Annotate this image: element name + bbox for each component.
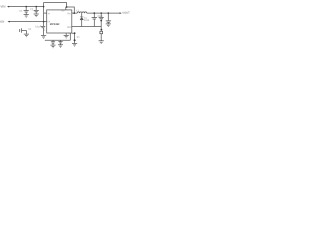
svg-text:C1: C1 bbox=[19, 10, 23, 13]
diode D1 symbol bbox=[80, 17, 83, 20]
wire FB pin stub and divider bbox=[72, 33, 75, 43]
svg-text:4: 4 bbox=[44, 29, 46, 32]
svg-text:EN: EN bbox=[0, 20, 4, 24]
node junction dot VIN-C1 bbox=[25, 6, 27, 8]
node junction dot C6 top bbox=[100, 12, 102, 14]
capacitor C5 output bbox=[92, 13, 97, 26]
capacitor C2 input bbox=[34, 7, 39, 14]
node VIN terminal arrow bbox=[7, 6, 9, 8]
wire IN pin stub bbox=[44, 12, 47, 14]
node VIN input rail bbox=[8, 6, 44, 8]
wire GND stub under IC bbox=[65, 33, 67, 35]
svg-text:0.1µF: 0.1µF bbox=[35, 25, 42, 28]
node junction dot C6 polarity bbox=[100, 20, 102, 22]
ground under IC bbox=[64, 35, 69, 38]
wire BST pin stub bbox=[65, 7, 67, 10]
capacitor CC2 comp bbox=[58, 40, 62, 44]
node junction dot SW bbox=[73, 12, 75, 14]
node junction dot VIN bus corner bbox=[43, 6, 45, 8]
capacitor C1 input bbox=[24, 7, 29, 15]
svg-text:VOUT: VOUT bbox=[122, 12, 130, 15]
svg-text:SW: SW bbox=[67, 12, 70, 15]
ground under C1 bbox=[24, 15, 29, 18]
svg-text:R1: R1 bbox=[77, 36, 81, 39]
wire over-the-top from VIN bus to SW area bbox=[44, 3, 75, 14]
capacitor C6 output bbox=[99, 13, 104, 26]
node junction dot bus end bbox=[101, 29, 103, 31]
node EN input wire bbox=[9, 21, 47, 23]
svg-text:C4: C4 bbox=[28, 28, 32, 31]
wire left bus VIN to IN pin and down bbox=[43, 7, 45, 22]
node junction dot C5 top bbox=[93, 12, 95, 14]
capacitor C4 horizontal near EN bbox=[20, 28, 27, 34]
capacitor CC1 comp bbox=[51, 40, 55, 45]
ground under C4 bbox=[24, 34, 29, 37]
op IC U1 body bbox=[47, 10, 72, 33]
node junction dot EN bus bbox=[43, 21, 45, 23]
ground under C3 bbox=[41, 36, 46, 39]
diode D1 wire bbox=[81, 13, 83, 26]
node junction dot BST corner bbox=[66, 6, 68, 8]
wire output ground bus bbox=[72, 27, 101, 41]
resistor R2 below bus bbox=[100, 31, 103, 33]
node junction dot VIN-C2 bbox=[35, 6, 37, 8]
svg-text:GND: GND bbox=[67, 26, 72, 29]
capacitor C3 on EN/VIN bus bbox=[41, 22, 45, 36]
svg-text:B230: B230 bbox=[84, 19, 90, 22]
ground under R2 bbox=[99, 41, 104, 44]
svg-text:MP2482: MP2482 bbox=[50, 23, 60, 26]
wire SW output line bbox=[72, 12, 120, 14]
ground under FB divider bbox=[72, 44, 77, 47]
capacitor C7 output right bbox=[106, 13, 111, 24]
node VOUT terminal arrow bbox=[120, 12, 122, 14]
ground under C7 bbox=[106, 24, 111, 27]
ground under CC2 bbox=[58, 45, 63, 48]
svg-text:VIN: VIN bbox=[0, 4, 5, 8]
ground under CC1 bbox=[51, 45, 56, 48]
svg-text:C2: C2 bbox=[30, 8, 34, 11]
svg-text:22µF: 22µF bbox=[97, 15, 103, 18]
node EN terminal arrow bbox=[8, 21, 10, 23]
svg-text:IN: IN bbox=[48, 12, 51, 15]
node junction dot C7 top bbox=[108, 12, 110, 14]
ground under C2 bbox=[34, 14, 39, 17]
node junction dot FB divider bbox=[74, 39, 76, 41]
wire COMP pin network bbox=[45, 33, 71, 40]
inductor L1 bbox=[77, 12, 87, 13]
node junction dot FB stub bbox=[74, 32, 76, 34]
